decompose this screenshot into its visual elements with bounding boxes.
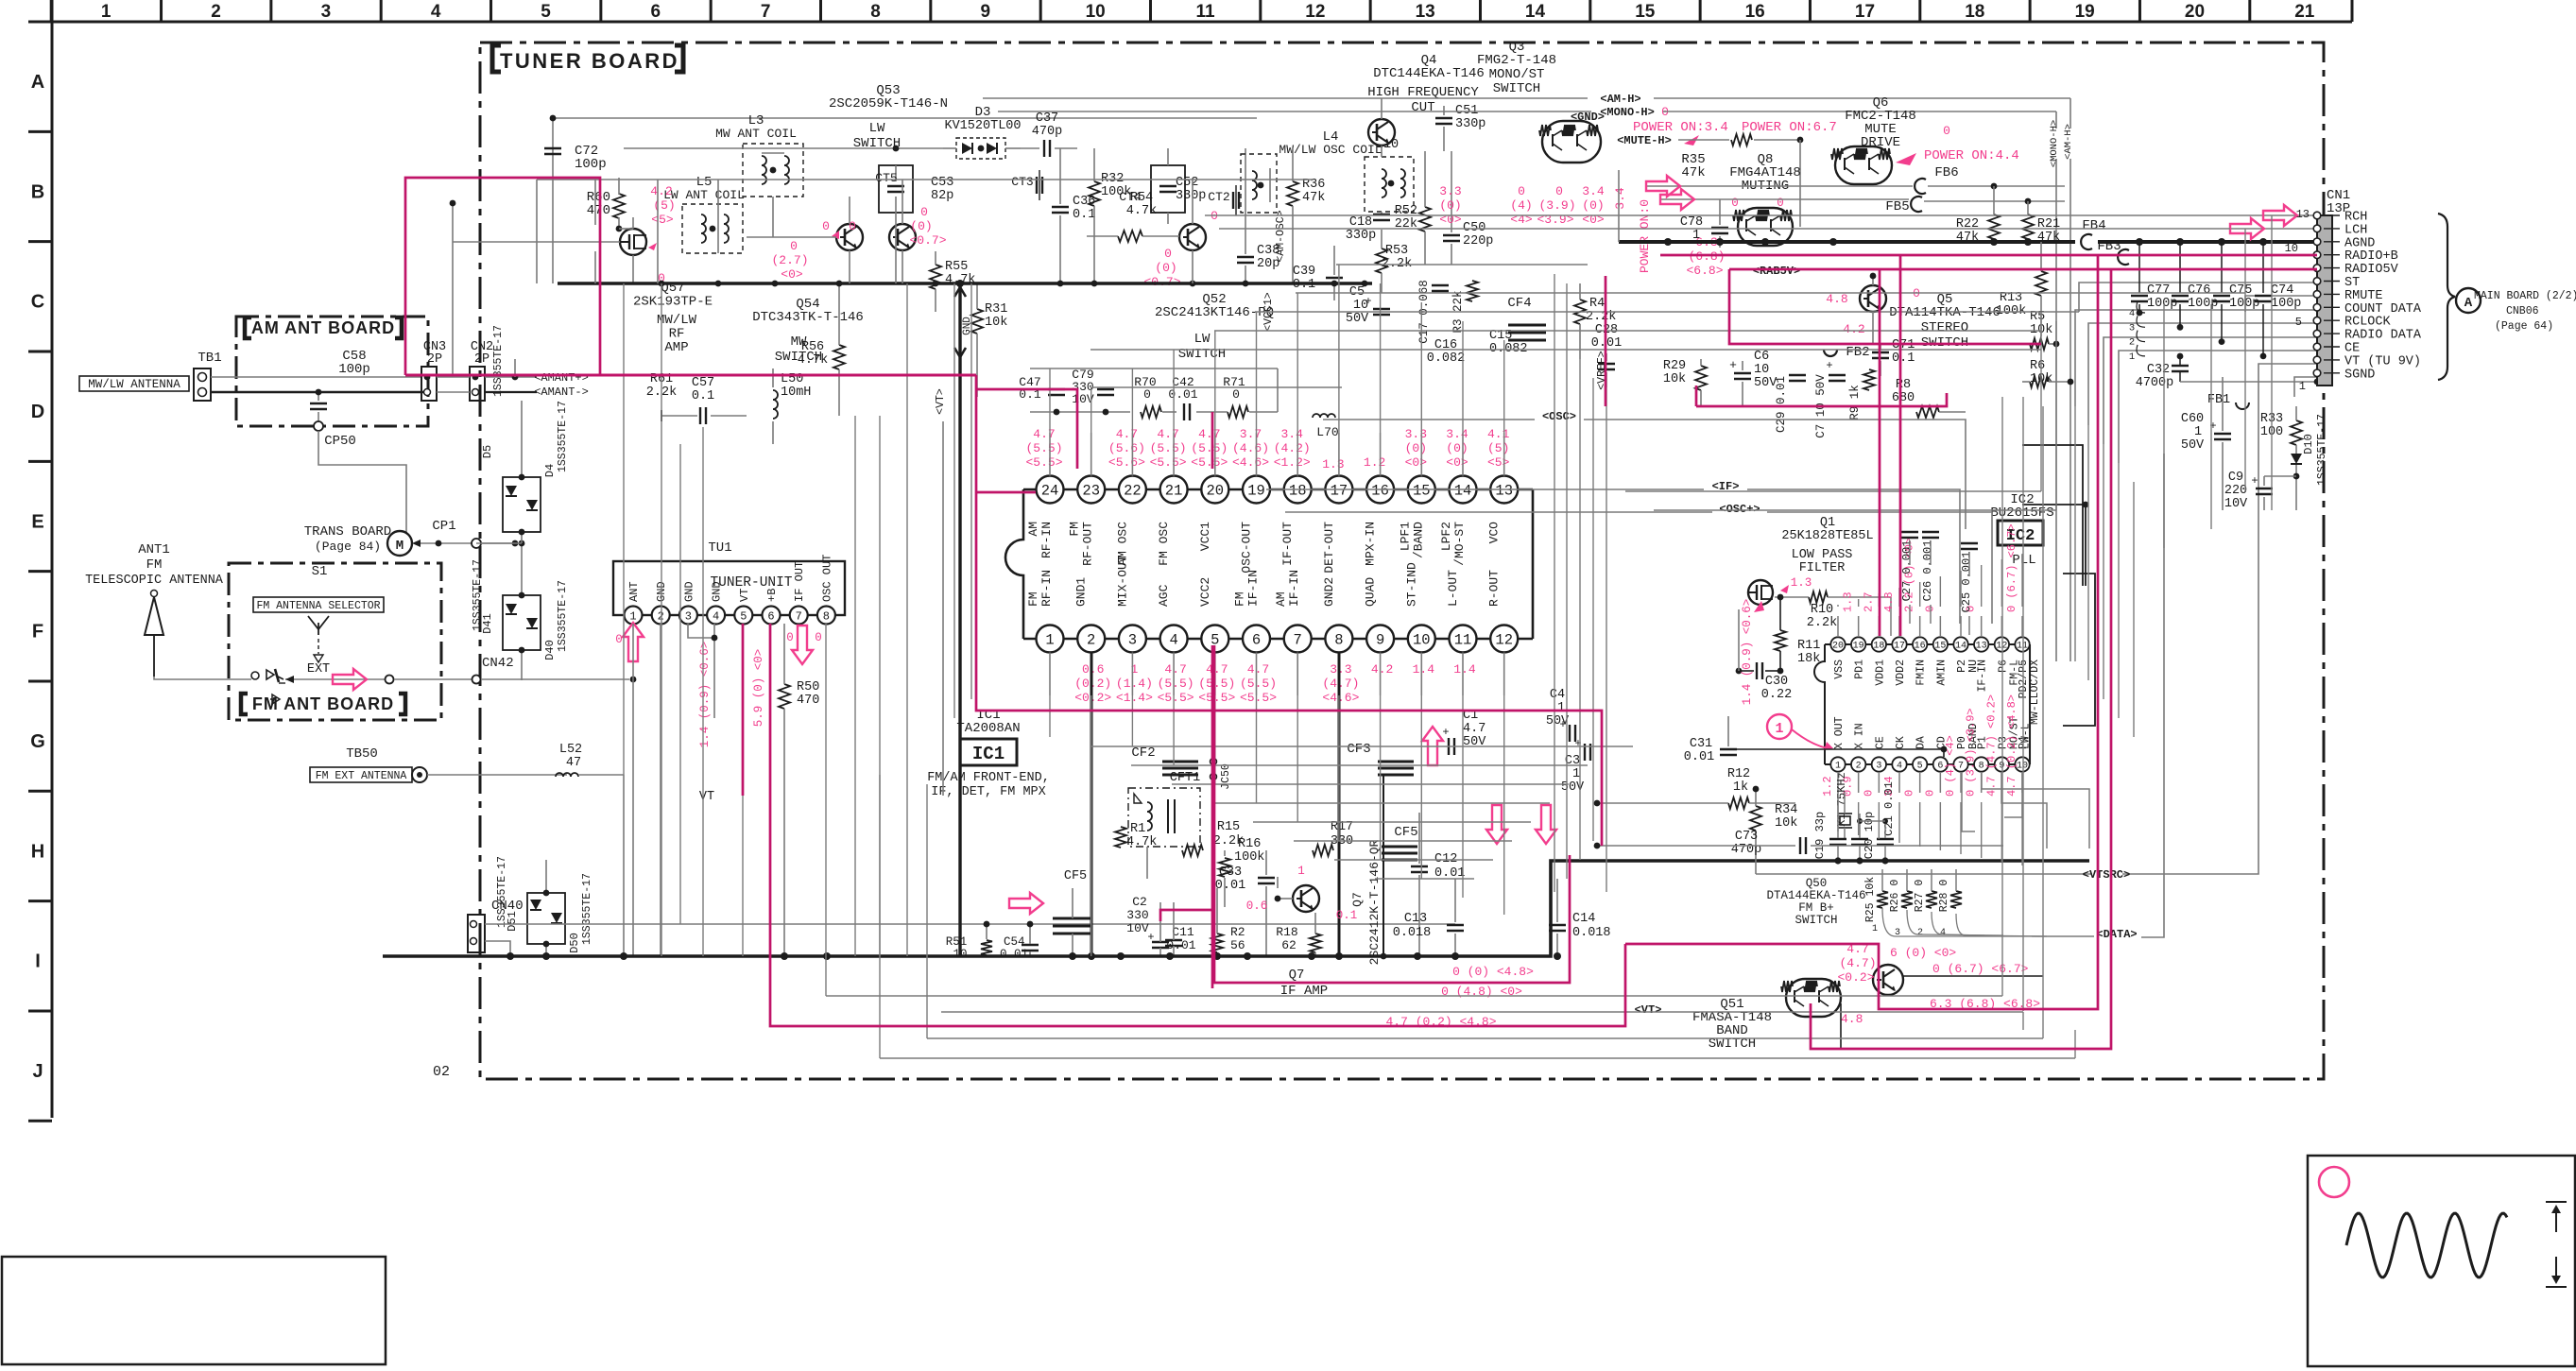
svg-text:MW/LW OSC COIL: MW/LW OSC COIL bbox=[1279, 143, 1382, 157]
svg-text:10: 10 bbox=[1754, 363, 1769, 377]
svg-text:5: 5 bbox=[2295, 316, 2302, 329]
svg-text:4.7: 4.7 bbox=[1033, 427, 1055, 441]
wire bbox=[1618, 170, 1620, 242]
AM ANT board title bbox=[245, 317, 251, 338]
svg-text:17: 17 bbox=[1855, 2, 1875, 22]
svg-text:<4.6>: <4.6> bbox=[1322, 691, 1359, 705]
wire rmute bbox=[2245, 296, 2317, 312]
tuner board border bbox=[480, 43, 2324, 1079]
svg-text:1: 1 bbox=[1775, 721, 1783, 737]
svg-text:FB6: FB6 bbox=[1934, 165, 1958, 180]
svg-text:19: 19 bbox=[1247, 483, 1265, 500]
transistor Q53 bbox=[889, 224, 916, 250]
svg-text:LCH: LCH bbox=[2344, 223, 2367, 237]
svg-text:FM OSC: FM OSC bbox=[1157, 522, 1171, 566]
svg-text:10: 10 bbox=[1413, 632, 1431, 649]
svg-text:16: 16 bbox=[1915, 642, 1926, 652]
FM ANT board border bbox=[229, 563, 441, 720]
svg-text:4.1: 4.1 bbox=[1487, 427, 1510, 441]
svg-text:D3: D3 bbox=[975, 105, 991, 120]
svg-text:47k: 47k bbox=[1681, 165, 1705, 180]
svg-text:R29: R29 bbox=[1663, 359, 1686, 373]
small arrow bbox=[272, 694, 280, 704]
svg-text:4.7: 4.7 bbox=[1116, 427, 1138, 441]
svg-text:10: 10 bbox=[953, 948, 967, 961]
svg-text:FM/AM FRONT-END,: FM/AM FRONT-END, bbox=[927, 771, 1050, 785]
svg-text:C78: C78 bbox=[1680, 215, 1703, 230]
FM antenna selector label bbox=[253, 597, 384, 612]
wire q53 collector bbox=[902, 180, 903, 224]
svg-text:ANT1: ANT1 bbox=[138, 542, 170, 557]
svg-text:10V: 10V bbox=[2224, 497, 2248, 511]
svg-text:IC1: IC1 bbox=[972, 744, 1005, 764]
svg-text:13: 13 bbox=[1416, 2, 1435, 22]
svg-text:50V: 50V bbox=[1463, 735, 1486, 749]
svg-text:4: 4 bbox=[1897, 762, 1902, 772]
ferrite FB2 bbox=[1824, 350, 1837, 356]
svg-text:TB1: TB1 bbox=[197, 351, 221, 366]
svg-text:C: C bbox=[31, 292, 44, 313]
svg-text:F: F bbox=[32, 622, 43, 643]
svg-text:1: 1 bbox=[2194, 425, 2202, 439]
svg-text:FB5: FB5 bbox=[1885, 199, 1909, 214]
svg-text:220p: 220p bbox=[1463, 234, 1493, 248]
svg-text:1.2: 1.2 bbox=[1364, 455, 1385, 470]
svg-text:12: 12 bbox=[1495, 632, 1513, 649]
svg-text:MW ANT COIL: MW ANT COIL bbox=[715, 127, 797, 141]
svg-text:C2: C2 bbox=[1132, 895, 1147, 909]
svg-text:FMG2-T-148: FMG2-T-148 bbox=[1477, 53, 1556, 68]
svg-text:C30: C30 bbox=[1765, 675, 1788, 689]
svg-text:BU2615FS: BU2615FS bbox=[1990, 506, 2053, 521]
svg-text:D50: D50 bbox=[568, 933, 581, 953]
svg-text:LOW PASS: LOW PASS bbox=[1792, 548, 1853, 562]
wire GND2 trunk bbox=[1338, 652, 1341, 956]
ground bus bottom bbox=[383, 861, 2089, 956]
svg-text:4.8: 4.8 bbox=[1882, 591, 1896, 612]
wire sgnd bbox=[2294, 377, 2317, 397]
svg-text:4: 4 bbox=[1169, 632, 1177, 649]
svg-text:20: 20 bbox=[1832, 642, 1844, 652]
svg-text:6: 6 bbox=[767, 610, 774, 624]
svg-text:CK: CK bbox=[1895, 736, 1907, 749]
svg-text:1: 1 bbox=[101, 2, 112, 22]
svg-text:<0.7>: <0.7> bbox=[909, 233, 946, 248]
arrow bbox=[1646, 176, 1680, 197]
wire bbox=[657, 180, 659, 283]
wire bbox=[717, 180, 719, 253]
svg-text:RMUTE: RMUTE bbox=[2344, 289, 2383, 303]
border frame ruler bbox=[28, 21, 2352, 24]
svg-text:50V: 50V bbox=[1346, 312, 1369, 326]
svg-text:3: 3 bbox=[685, 610, 692, 624]
svg-text:0: 0 bbox=[822, 219, 830, 233]
svg-text:0: 0 bbox=[1518, 184, 1525, 198]
svg-text:R51: R51 bbox=[946, 935, 968, 949]
trimmer CT4 C52 bbox=[1151, 165, 1185, 213]
transistor Q5 bbox=[1860, 285, 1886, 312]
svg-text:C53: C53 bbox=[931, 176, 953, 190]
svg-text:LW: LW bbox=[1194, 332, 1211, 347]
svg-text:<5.5>: <5.5> bbox=[1150, 455, 1187, 470]
svg-text:16: 16 bbox=[1371, 483, 1389, 500]
svg-text:M: M bbox=[396, 539, 404, 554]
svg-text:MONO/ST: MONO/ST bbox=[1489, 67, 1545, 82]
svg-text:1SS355TE-17: 1SS355TE-17 bbox=[2316, 414, 2328, 486]
svg-text:(0.2): (0.2) bbox=[1074, 677, 1111, 691]
svg-text:2.7: 2.7 bbox=[1862, 591, 1875, 612]
svg-text:FM: FM bbox=[146, 557, 163, 573]
FM ANT board title bbox=[241, 694, 248, 714]
svg-text:1SS355TE-17: 1SS355TE-17 bbox=[492, 325, 505, 397]
svg-text:0 (6.7) <6.7>: 0 (6.7) <6.7> bbox=[1932, 962, 2029, 976]
coil L70 bbox=[1313, 414, 1320, 418]
svg-text:R50: R50 bbox=[797, 680, 819, 694]
svg-text:S1: S1 bbox=[312, 564, 328, 579]
svg-text:FM: FM bbox=[1068, 522, 1082, 537]
svg-text:FM B+: FM B+ bbox=[1798, 901, 1834, 915]
svg-text:RADIO+B: RADIO+B bbox=[2344, 249, 2398, 264]
arrow bbox=[1536, 805, 1556, 844]
svg-text:0: 0 bbox=[790, 239, 798, 253]
svg-text:AM ANT BOARD: AM ANT BOARD bbox=[251, 318, 395, 337]
svg-text:8: 8 bbox=[1979, 762, 1984, 772]
svg-text:LW: LW bbox=[869, 121, 885, 136]
svg-text:LPF2: LPF2 bbox=[1439, 522, 1453, 551]
svg-text:330: 330 bbox=[1126, 908, 1148, 922]
svg-text:1.4: 1.4 bbox=[1453, 662, 1476, 677]
svg-text:1k: 1k bbox=[1733, 780, 1748, 795]
svg-text:<VT>: <VT> bbox=[1635, 1003, 1662, 1017]
svg-text:DA: DA bbox=[1915, 736, 1928, 749]
svg-text:<5.5>: <5.5> bbox=[1191, 455, 1228, 470]
MW/LW antenna label bbox=[79, 376, 189, 391]
svg-text:21: 21 bbox=[1165, 483, 1183, 500]
svg-text:<AM-H>: <AM-H> bbox=[1600, 93, 1640, 106]
svg-text:2: 2 bbox=[658, 610, 664, 624]
svg-text:7: 7 bbox=[761, 2, 771, 22]
svg-text:IF, DET, FM MPX: IF, DET, FM MPX bbox=[931, 785, 1046, 799]
brace bbox=[2438, 214, 2455, 380]
svg-text:C13: C13 bbox=[1404, 912, 1427, 926]
transistor Q54 bbox=[836, 224, 863, 250]
svg-text:6: 6 bbox=[1937, 762, 1943, 772]
svg-text:L52: L52 bbox=[559, 743, 582, 757]
wire EXT bbox=[285, 678, 389, 680]
FET Q57 bbox=[620, 229, 646, 255]
svg-text:C39: C39 bbox=[1293, 265, 1315, 279]
svg-text:<AMANT+>: <AMANT+> bbox=[534, 371, 589, 385]
svg-text:VT (TU 9V): VT (TU 9V) bbox=[2344, 354, 2421, 368]
svg-text:FB2: FB2 bbox=[1846, 345, 1869, 360]
svg-text:1SS355TE-17: 1SS355TE-17 bbox=[557, 401, 569, 472]
svg-text:C54: C54 bbox=[1004, 935, 1025, 949]
svg-text:DTC144EKA-T146: DTC144EKA-T146 bbox=[1373, 66, 1485, 81]
svg-text:AGC: AGC bbox=[1157, 584, 1171, 607]
svg-text:4.7: 4.7 bbox=[1198, 427, 1220, 441]
svg-text:3: 3 bbox=[1128, 632, 1137, 649]
svg-text:11: 11 bbox=[1454, 632, 1472, 649]
svg-text:0.01: 0.01 bbox=[1168, 387, 1197, 402]
svg-text:3.3: 3.3 bbox=[1405, 427, 1427, 441]
svg-text:AMP: AMP bbox=[664, 340, 688, 355]
svg-text:47k: 47k bbox=[1302, 191, 1325, 205]
svg-text:1SS355TE-17: 1SS355TE-17 bbox=[557, 580, 569, 652]
svg-text:10: 10 bbox=[2285, 242, 2298, 255]
svg-text:13: 13 bbox=[2296, 208, 2310, 221]
svg-text:C31: C31 bbox=[1690, 737, 1712, 751]
svg-text:R25 10k: R25 10k bbox=[1864, 877, 1877, 922]
transistor Q52 bbox=[1179, 224, 1206, 250]
arrow rch bbox=[2263, 205, 2297, 226]
svg-text:DTC343TK-T-146: DTC343TK-T-146 bbox=[752, 310, 864, 325]
svg-text:RADIO5V: RADIO5V bbox=[2344, 263, 2399, 277]
svg-text:0: 0 bbox=[1143, 387, 1151, 402]
svg-text:D10: D10 bbox=[2302, 434, 2315, 454]
svg-text:FM: FM bbox=[1233, 591, 1247, 607]
svg-text:330p: 330p bbox=[1176, 189, 1206, 203]
arrow bbox=[792, 626, 813, 664]
svg-text:C33: C33 bbox=[1219, 865, 1242, 880]
svg-text:10mH: 10mH bbox=[781, 386, 811, 400]
diode D5 pair bbox=[503, 477, 541, 532]
svg-text:1: 1 bbox=[1572, 767, 1580, 781]
svg-text:L70: L70 bbox=[1316, 425, 1338, 439]
svg-text:4: 4 bbox=[431, 2, 441, 22]
svg-text:4.8: 4.8 bbox=[1841, 1012, 1863, 1026]
svg-text:R55: R55 bbox=[945, 260, 968, 274]
svg-text:D40: D40 bbox=[543, 640, 557, 660]
svg-text:CF5: CF5 bbox=[1064, 869, 1087, 883]
svg-text:(0): (0) bbox=[1405, 441, 1427, 455]
tu1 pin wires bbox=[632, 624, 634, 956]
svg-text:1.4: 1.4 bbox=[1413, 662, 1435, 677]
svg-text:(6.8): (6.8) bbox=[1688, 249, 1725, 264]
svg-text:<RAB5V>: <RAB5V> bbox=[1753, 265, 1800, 278]
svg-text:AM: AM bbox=[1026, 522, 1040, 537]
svg-text:MW-LLOC/DX: MW-LLOC/DX bbox=[2029, 660, 2041, 725]
svg-text:0: 0 bbox=[1943, 124, 1950, 138]
svg-text:0.1: 0.1 bbox=[1073, 208, 1095, 222]
svg-text:6 (0) <0>: 6 (0) <0> bbox=[1890, 946, 1956, 960]
diode D51 D50 pair bbox=[527, 893, 565, 944]
wire lch long bbox=[1219, 228, 2230, 230]
arrow bbox=[1660, 189, 1694, 210]
svg-text:10V: 10V bbox=[1126, 921, 1149, 935]
connector TU1 bbox=[613, 561, 845, 615]
svg-text:C11: C11 bbox=[1172, 925, 1194, 939]
svg-text:A: A bbox=[31, 72, 44, 93]
svg-text:1.3: 1.3 bbox=[1791, 576, 1812, 590]
wire ic2 corner2 bbox=[2022, 505, 2086, 586]
svg-text:J: J bbox=[32, 1061, 43, 1082]
IC1 pin wires bbox=[1049, 433, 1051, 476]
svg-text:R31: R31 bbox=[985, 302, 1007, 317]
svg-text:14: 14 bbox=[1454, 483, 1472, 500]
svg-text:Q7: Q7 bbox=[1350, 892, 1365, 907]
svg-text:330p: 330p bbox=[1346, 229, 1376, 243]
svg-text:23: 23 bbox=[1082, 483, 1100, 500]
svg-text:4.7k: 4.7k bbox=[1126, 835, 1157, 849]
svg-text:470: 470 bbox=[587, 203, 610, 218]
svg-text:/MO-ST: /MO-ST bbox=[1452, 522, 1467, 566]
transistor Q7 bbox=[1293, 885, 1319, 912]
svg-text:R9 1k: R9 1k bbox=[1848, 385, 1862, 420]
wire ce bbox=[2119, 351, 2317, 463]
svg-text:10k: 10k bbox=[985, 316, 1007, 330]
svg-text:100p: 100p bbox=[2188, 297, 2218, 311]
svg-text:0: 0 bbox=[1232, 387, 1240, 402]
transistor Q4 bbox=[1368, 119, 1395, 146]
svg-text:X OUT: X OUT bbox=[1833, 716, 1846, 749]
svg-text:R16: R16 bbox=[1238, 837, 1261, 851]
svg-text:14: 14 bbox=[1955, 642, 1966, 652]
svg-text:<0.2>: <0.2> bbox=[1837, 970, 1874, 985]
svg-text:1: 1 bbox=[1835, 762, 1841, 772]
svg-text:Q7: Q7 bbox=[1289, 968, 1305, 983]
svg-text:1.4 (0.9) <0.6>: 1.4 (0.9) <0.6> bbox=[1741, 599, 1754, 706]
svg-text:3.3: 3.3 bbox=[1439, 184, 1461, 198]
ferrite FB4 bbox=[2081, 234, 2092, 249]
svg-text:<MONO-H>: <MONO-H> bbox=[1600, 106, 1655, 119]
svg-text:(0): (0) bbox=[1439, 198, 1461, 213]
svg-text:PD1: PD1 bbox=[1854, 660, 1866, 679]
svg-text:<VTSRC>: <VTSRC> bbox=[2083, 868, 2130, 882]
svg-text:R8: R8 bbox=[1896, 378, 1911, 392]
node CP50 bbox=[314, 421, 323, 431]
arrow bbox=[1422, 727, 1443, 765]
wire radiodata bbox=[2104, 337, 2317, 444]
svg-text:0.01: 0.01 bbox=[1215, 879, 1245, 893]
svg-text:(4.7): (4.7) bbox=[1322, 677, 1359, 691]
svg-text:<5.5>: <5.5> bbox=[1158, 691, 1194, 705]
svg-text:25K1828TE85L: 25K1828TE85L bbox=[1781, 529, 1873, 543]
svg-text:3.3: 3.3 bbox=[1330, 662, 1351, 677]
svg-text:1: 1 bbox=[1297, 865, 1305, 878]
svg-text:2SC2059K-T146-N: 2SC2059K-T146-N bbox=[829, 96, 948, 111]
svg-text:0.082: 0.082 bbox=[1427, 351, 1466, 366]
svg-text:GND: GND bbox=[682, 581, 696, 602]
svg-text:OSC-OUT: OSC-OUT bbox=[1240, 522, 1254, 574]
svg-text:TRANS BOARD: TRANS BOARD bbox=[304, 524, 391, 540]
diode D40 D41 pair bbox=[503, 595, 541, 650]
svg-text:<5.5>: <5.5> bbox=[1240, 691, 1277, 705]
svg-text:DET-OUT: DET-OUT bbox=[1322, 522, 1336, 574]
arrow bbox=[333, 669, 367, 690]
svg-text:3.4: 3.4 bbox=[1446, 427, 1468, 441]
wire q52 bbox=[1192, 180, 1194, 224]
svg-text:0: 0 bbox=[1731, 197, 1739, 210]
svg-text:RF-OUT: RF-OUT bbox=[1081, 522, 1095, 566]
svg-text:(5.5): (5.5) bbox=[1025, 441, 1062, 455]
svg-text:C9: C9 bbox=[2228, 471, 2243, 485]
svg-text:C4: C4 bbox=[1550, 688, 1565, 702]
svg-text:IF-IN: IF-IN bbox=[1287, 570, 1301, 607]
svg-text:20: 20 bbox=[1206, 483, 1224, 500]
waveform bbox=[2346, 1213, 2507, 1277]
svg-text:COUNT DATA: COUNT DATA bbox=[2344, 302, 2422, 317]
svg-text:FM: FM bbox=[1026, 591, 1040, 607]
svg-text:GND2: GND2 bbox=[1322, 577, 1336, 607]
svg-text:<5>: <5> bbox=[651, 213, 674, 227]
switch S1 bbox=[251, 672, 259, 679]
svg-text:100p: 100p bbox=[2147, 297, 2177, 311]
wire ic2 corner1 bbox=[2022, 445, 2083, 586]
wire bbox=[537, 179, 1314, 180]
svg-text:3.4: 3.4 bbox=[1280, 427, 1303, 441]
svg-text:IF-IN: IF-IN bbox=[1246, 570, 1261, 607]
svg-text:QUAD: QUAD bbox=[1364, 577, 1378, 607]
gnd flag bbox=[958, 283, 961, 956]
svg-text:ST-IND: ST-IND bbox=[1404, 562, 1418, 607]
svg-text:680: 680 bbox=[1892, 391, 1915, 405]
svg-text:C14: C14 bbox=[1572, 912, 1595, 926]
svg-text:5: 5 bbox=[1917, 762, 1923, 772]
wire am-h bbox=[983, 97, 1588, 99]
svg-text:100p: 100p bbox=[338, 362, 370, 377]
svg-text:CT4: CT4 bbox=[1119, 190, 1142, 204]
svg-text:A: A bbox=[2464, 296, 2473, 311]
svg-text:DTA144EKA-T146: DTA144EKA-T146 bbox=[1766, 889, 1865, 902]
op-amp IC1 body bbox=[1050, 488, 1504, 491]
svg-text:(4.6): (4.6) bbox=[1232, 441, 1269, 455]
wire bbox=[594, 251, 596, 283]
svg-text:470p: 470p bbox=[1032, 125, 1062, 139]
waveform legend circle bbox=[2319, 1167, 2349, 1197]
svg-text:VSS: VSS bbox=[1833, 660, 1846, 679]
svg-text:12: 12 bbox=[1305, 2, 1325, 22]
svg-text:POWER ON:3.4: POWER ON:3.4 bbox=[1633, 120, 1728, 135]
svg-text:C73: C73 bbox=[1735, 830, 1758, 844]
svg-text:20: 20 bbox=[2185, 2, 2205, 22]
svg-text:4.7: 4.7 bbox=[1463, 722, 1485, 736]
svg-text:C76: C76 bbox=[2188, 283, 2210, 298]
svg-text:C75: C75 bbox=[2229, 283, 2252, 298]
svg-text:<MONO-H>: <MONO-H> bbox=[2049, 120, 2060, 167]
svg-text:C18: C18 bbox=[1349, 215, 1372, 230]
dual transistor Q3 bbox=[1542, 121, 1601, 163]
svg-text:13: 13 bbox=[1495, 483, 1513, 500]
svg-text:0 (3.9) <3.9>: 0 (3.9) <3.9> bbox=[1965, 708, 1978, 797]
svg-text:(5.6): (5.6) bbox=[1108, 441, 1145, 455]
revision box bbox=[2, 1257, 386, 1364]
svg-text:D: D bbox=[31, 402, 44, 422]
svg-text:TUNER BOARD: TUNER BOARD bbox=[500, 49, 679, 73]
svg-text:IF-OUT: IF-OUT bbox=[1280, 522, 1295, 566]
svg-text:11: 11 bbox=[1195, 2, 1215, 22]
svg-text:CF3: CF3 bbox=[1347, 742, 1370, 757]
svg-text:0.1: 0.1 bbox=[692, 389, 714, 403]
svg-text:4.7k: 4.7k bbox=[1126, 204, 1157, 218]
svg-text:0: 0 bbox=[786, 631, 794, 644]
IC2 right bracket bbox=[2063, 574, 2095, 726]
svg-text:18: 18 bbox=[1873, 642, 1884, 652]
svg-text:1: 1 bbox=[1872, 924, 1878, 934]
svg-text:VT: VT bbox=[699, 790, 714, 804]
svg-text:+: + bbox=[2251, 474, 2258, 488]
svg-text:4.7 (0.2) <4.8>: 4.7 (0.2) <4.8> bbox=[2005, 694, 2018, 797]
svg-text:+: + bbox=[1365, 295, 1371, 308]
svg-text:470: 470 bbox=[797, 694, 819, 708]
svg-text:6: 6 bbox=[1252, 632, 1261, 649]
svg-text:VCO: VCO bbox=[1487, 522, 1502, 544]
svg-text:4.7: 4.7 bbox=[1157, 427, 1178, 441]
svg-text:/BAND: /BAND bbox=[1411, 522, 1425, 558]
svg-text:MPX-IN: MPX-IN bbox=[1364, 522, 1378, 566]
svg-text:SWITCH: SWITCH bbox=[1493, 81, 1540, 96]
svg-text:B: B bbox=[31, 181, 44, 202]
svg-text:CF2: CF2 bbox=[1131, 745, 1155, 761]
